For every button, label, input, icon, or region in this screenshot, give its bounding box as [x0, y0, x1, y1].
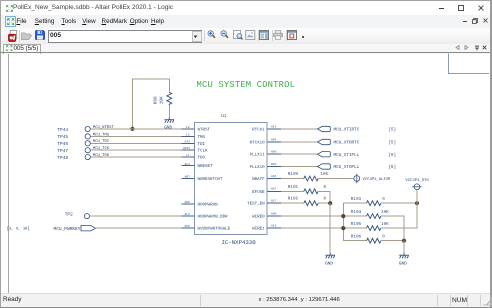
resistor R103	[367, 201, 381, 206]
svg-text:A14: A14	[271, 125, 277, 128]
svg-text:MCU_XTOPLL: MCU_XTOPLL	[334, 165, 360, 170]
resistor R102	[304, 201, 318, 206]
resistor R106	[367, 238, 381, 243]
svg-text:MCU_XTIRTC: MCU_XTIRTC	[334, 128, 360, 133]
svg-text:MCU_TDI: MCU_TDI	[93, 139, 109, 144]
svg-text:A04: A04	[271, 138, 277, 141]
resistor R105	[367, 226, 381, 231]
test point TP48	[85, 155, 90, 160]
wire WIRE0 to rail	[281, 215, 343, 217]
svg-text:L7: L7	[186, 154, 190, 157]
left rail of R103-R106	[343, 203, 366, 241]
svg-text:0: 0	[382, 234, 385, 239]
sheet top-right corner frame	[449, 54, 490, 74]
fit image icon	[245, 30, 256, 40]
port MCU_XTOPLL	[318, 164, 331, 169]
svg-text:WIRE1: WIRE1	[252, 227, 265, 232]
svg-text:0: 0	[324, 185, 327, 190]
svg-text:10K: 10K	[381, 210, 389, 215]
pin names left	[198, 128, 231, 232]
wire WIRE1 to rail	[281, 227, 343, 229]
svg-text:GND: GND	[399, 261, 407, 266]
svg-text:TCLK: TCLK	[198, 149, 209, 154]
wire MCU_TDO	[90, 156, 183, 158]
sheet left border	[8, 54, 10, 293]
svg-text:WIRE0: WIRE0	[252, 215, 265, 220]
junction dot R102	[328, 201, 332, 205]
svg-text:RTCX10: RTCX10	[250, 141, 266, 146]
svg-text:L9: L9	[186, 133, 190, 136]
svg-text:R102: R102	[288, 197, 299, 202]
wire PLLX10 to port	[281, 166, 318, 168]
MDI child icon	[5, 16, 16, 27]
wire R105 right corner up	[381, 203, 417, 228]
svg-text:MCU_TCK: MCU_TCK	[93, 146, 110, 151]
svg-text:TP46: TP46	[57, 141, 68, 147]
pin numbers right	[271, 125, 277, 227]
new/import icon with red altair badge	[8, 30, 18, 42]
wire MCU_PWRKEY to WVDDPWRTOGGLE	[95, 227, 183, 229]
power VCC3P3_SYS	[416, 190, 418, 203]
power VCC3P3_ALIVE	[354, 174, 360, 184]
svg-text:[5]: [5]	[388, 140, 396, 146]
svg-text:B06: B06	[271, 163, 277, 166]
svg-text:TP45: TP45	[57, 135, 68, 140]
svg-text:MCU_NTRST: MCU_NTRST	[93, 125, 115, 130]
wire MCU_TDI	[90, 142, 183, 144]
wire R101 right corner down	[318, 191, 330, 203]
window buttons	[439, 8, 444, 10]
port MCU_XTORTC	[318, 139, 331, 144]
zoom in icon	[207, 30, 217, 40]
svg-text:TMS: TMS	[198, 135, 206, 140]
menu bar	[1, 15, 490, 28]
wire R68 top loop	[132, 79, 169, 129]
svg-text:0: 0	[382, 197, 385, 202]
svg-text:PLLX10: PLLX10	[250, 165, 266, 170]
svg-text:[5]: [5]	[388, 152, 396, 158]
ground under R68	[165, 118, 175, 123]
svg-text:IC-NXP4330: IC-NXP4330	[222, 239, 257, 246]
svg-text:HODPWRON_DDR: HODPWRON_DDR	[198, 214, 229, 219]
junction dot on NTRST	[130, 127, 134, 131]
svg-text:R104: R104	[351, 210, 362, 215]
pin stubs right	[267, 129, 281, 228]
svg-text:[3, 9, 10]: [3, 9, 10]	[7, 226, 30, 231]
svg-text:WVDDPWRTOGGLE: WVDDPWRTOGGLE	[198, 227, 231, 232]
pin names right	[247, 128, 265, 232]
svg-text:VCC3P3_SYS: VCC3P3_SYS	[405, 178, 429, 183]
svg-text:10K: 10K	[160, 96, 165, 104]
svg-text:PLLX11: PLLX11	[250, 153, 266, 158]
svg-text:A06: A06	[185, 201, 191, 204]
wire EFUSE to R101	[281, 190, 304, 192]
svg-text:RTCX1: RTCX1	[252, 128, 265, 133]
redmark window icon	[287, 30, 297, 40]
svg-text:TDO: TDO	[198, 156, 206, 161]
port MCU_XTIPLL	[318, 152, 331, 157]
wire R103 to VCC column	[381, 202, 417, 204]
svg-text:MCU_XTIPLL: MCU_XTIPLL	[334, 153, 360, 158]
resistor R104	[367, 214, 381, 219]
zoom page icon	[233, 30, 244, 41]
wire R106 to junction	[381, 240, 404, 242]
junction dot WIRE1	[341, 226, 345, 230]
svg-text:NBATF: NBATF	[252, 177, 265, 182]
svg-text:R103: R103	[351, 197, 362, 202]
canvas	[1, 54, 489, 294]
wire NBATF to R109	[281, 178, 304, 180]
svg-text:MCU_TDO: MCU_TDO	[93, 153, 110, 158]
svg-text:TP44: TP44	[57, 128, 68, 133]
junction dot VCC column	[415, 201, 419, 205]
svg-text:NTRST: NTRST	[198, 128, 211, 133]
save floppy icon	[35, 30, 45, 40]
wire R109 to VCC3P3_ALIVE	[318, 178, 353, 180]
svg-text:EFUSE: EFUSE	[252, 190, 265, 195]
resistor R101	[304, 189, 318, 194]
resistor R109	[304, 176, 318, 181]
svg-text:A04: A04	[271, 175, 277, 178]
wire down to GND left	[329, 203, 331, 253]
svg-text:HODPWRON: HODPWRON	[198, 203, 219, 208]
title bar	[1, 1, 490, 15]
wire RTCX1 to port	[281, 128, 318, 130]
pin numbers left	[183, 126, 190, 228]
wire down to GND right	[403, 241, 405, 253]
svg-text:R101: R101	[288, 185, 299, 190]
wire R68 bottom to gnd	[168, 105, 170, 117]
svg-text:AC4: AC4	[185, 163, 191, 166]
port MCU_PWRKEY	[81, 226, 95, 231]
svg-text:MCU_PWRKEY: MCU_PWRKEY	[54, 226, 81, 232]
svg-text:A58: A58	[185, 225, 191, 228]
tab bar right icons	[455, 45, 460, 50]
svg-text:A17: A17	[271, 200, 277, 203]
svg-text:VCC3P3_ALIVE: VCC3P3_ALIVE	[363, 177, 392, 182]
printer icon	[273, 30, 283, 40]
svg-text:A06: A06	[271, 151, 277, 154]
svg-text:A07: A07	[271, 188, 277, 191]
svg-text:TP47: TP47	[57, 149, 68, 154]
rail stubs R104 R105	[343, 215, 366, 217]
svg-text:A18: A18	[271, 225, 277, 228]
resize grip	[483, 296, 492, 306]
svg-text:10K: 10K	[381, 222, 389, 227]
wire PLLX11 to port	[281, 153, 318, 155]
svg-text:GND: GND	[164, 125, 172, 130]
MDI child window buttons	[463, 21, 468, 23]
svg-text:TEST_EN: TEST_EN	[247, 202, 265, 207]
spec sheet icon	[259, 30, 269, 40]
svg-text:GND: GND	[325, 261, 333, 266]
svg-text:R106: R106	[351, 234, 362, 239]
toolbar	[1, 28, 490, 45]
test point TP44	[85, 126, 90, 131]
ground left	[325, 253, 335, 258]
resistor R68 vertical	[167, 92, 172, 105]
svg-text:NRESET: NRESET	[198, 164, 214, 169]
wire RTCX10 to port	[281, 141, 318, 143]
wire MCU_TMS	[90, 135, 183, 137]
IC U1 IC-NXP4330 MCU body	[195, 123, 268, 235]
svg-text:R105: R105	[351, 222, 362, 227]
zoom out icon	[220, 30, 230, 40]
title icon (green arrows)	[6, 5, 13, 12]
svg-text:R68: R68	[154, 96, 159, 104]
svg-text:TP2: TP2	[65, 211, 73, 217]
svg-text:A08: A08	[271, 213, 277, 216]
svg-text:MCU SYSTEM CONTROL: MCU SYSTEM CONTROL	[197, 80, 296, 90]
junction dot R106	[402, 239, 406, 243]
svg-text:R109: R109	[288, 172, 299, 177]
wire MCU_TCK	[90, 149, 183, 151]
svg-text:AW76: AW76	[183, 147, 190, 150]
test point TP47	[85, 148, 90, 153]
tab bar	[1, 44, 490, 54]
svg-text:MCU_XTORTC: MCU_XTORTC	[334, 141, 360, 146]
svg-text:0: 0	[324, 197, 327, 202]
svg-text:A75: A75	[185, 140, 191, 143]
svg-text:TP48: TP48	[57, 155, 68, 161]
svg-text:AB7: AB7	[185, 175, 191, 178]
svg-text:AL8: AL8	[185, 213, 191, 216]
ground right	[399, 253, 409, 258]
open folder icon (gray)	[21, 31, 32, 41]
port MCU_XTIRTC	[318, 126, 331, 131]
svg-text:[5]: [5]	[388, 127, 396, 133]
svg-text:[5]: [5]	[388, 164, 396, 170]
test point TP2	[84, 214, 89, 219]
svg-text:MCU_TMS: MCU_TMS	[93, 132, 110, 137]
svg-text:TDI: TDI	[198, 142, 206, 147]
junction dot WIRE0	[341, 214, 345, 218]
pin stubs left	[182, 129, 195, 228]
test point TP45	[85, 134, 90, 139]
svg-text:L8: L8	[186, 126, 190, 129]
svg-text:NGRESETOUT: NGRESETOUT	[198, 177, 224, 182]
wire TP2 to HODPWRON_DDR	[90, 215, 184, 217]
wire R104 right corner down	[381, 216, 404, 241]
test point TP46	[85, 141, 90, 146]
svg-text:U1: U1	[221, 114, 227, 119]
svg-text:10K: 10K	[320, 172, 328, 177]
wire TEST_EN to R102	[281, 202, 304, 204]
overflow dot	[302, 36, 304, 38]
wire R102 to junction	[318, 202, 330, 204]
combo box	[48, 30, 202, 44]
wire MCU_NTRST	[90, 128, 183, 130]
status bar	[1, 293, 490, 307]
